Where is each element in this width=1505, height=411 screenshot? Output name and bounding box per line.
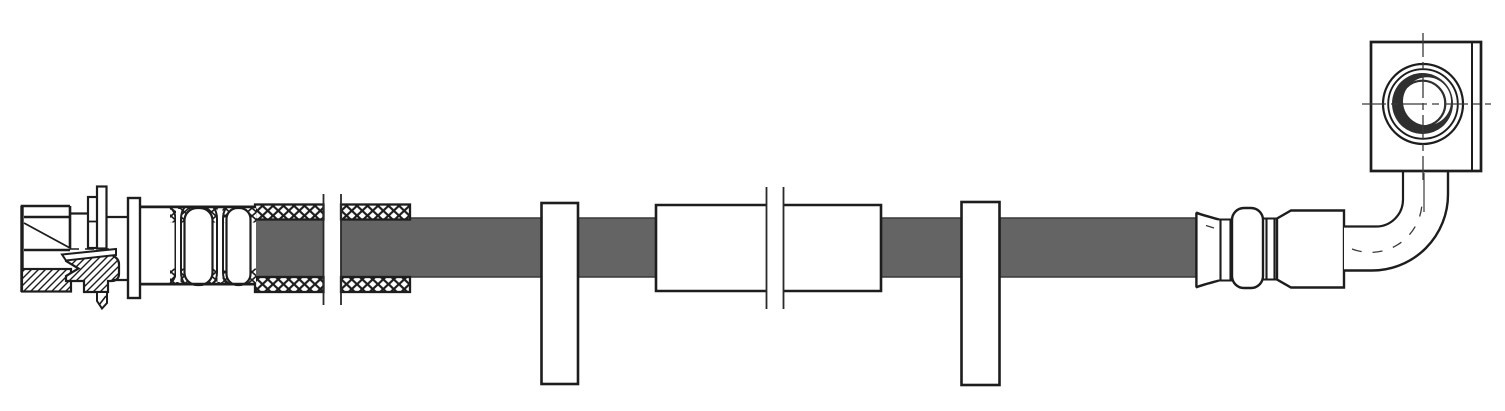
collar barrel bead 1 [185, 208, 213, 285]
mount flange [128, 198, 140, 298]
braid band bottom-left [255, 277, 324, 292]
collar edge lines [140, 207, 256, 284]
tab cross line [88, 221, 98, 223]
right neck 2 [1263, 219, 1277, 280]
block vertical centerline [1422, 33, 1424, 181]
hex nut sectioned (hatched) [66, 255, 119, 292]
block horizontal centerline [1362, 103, 1491, 105]
collar barrel bead 2 [227, 208, 251, 285]
collar body [140, 206, 256, 285]
banjo eye second circle [1388, 69, 1458, 139]
collar rib 2 [214, 208, 227, 284]
hose break line left pair [324, 194, 342, 305]
right neck 1 [1219, 220, 1232, 281]
fitting base [1196, 214, 1344, 280]
hose edge lines [410, 218, 1196, 277]
protective sleeve left half [656, 205, 767, 291]
mounting bracket 2 [962, 202, 1000, 385]
braid band top-left [255, 205, 324, 220]
hose dark rubber segment 3 [881, 218, 1196, 277]
bell centerline dash [1206, 226, 1214, 229]
fitting body box [22, 206, 70, 292]
sleeve break line pair [767, 187, 784, 309]
right ferrule shell [1277, 211, 1344, 288]
fitting lower hatched band [22, 269, 71, 292]
braid band top-right [341, 205, 410, 220]
protective sleeve right half [784, 205, 882, 291]
collar flat section [140, 208, 176, 284]
retainer washer band [62, 249, 116, 261]
banjo eye thick crescent ring [1392, 73, 1453, 134]
upper tab 1 [88, 197, 98, 248]
elbow dashed centerline [1352, 199, 1422, 252]
mounting bracket 1 [542, 203, 579, 384]
hose dark rubber segment 2 [341, 218, 656, 277]
collar rib 1 [176, 208, 185, 284]
collar end flare [250, 207, 256, 284]
connector lines to flange [70, 214, 128, 281]
banjo eye inner circle [1400, 81, 1446, 127]
lower tab pin [97, 292, 107, 309]
banjo eye outer circle [1383, 64, 1463, 144]
right bell flare [1196, 213, 1219, 288]
elbow vertical centerline [1423, 173, 1425, 212]
upper tab 2 [97, 187, 107, 249]
right barrel bead [1232, 208, 1263, 288]
braid band bottom-right [341, 277, 410, 292]
hose dark rubber segment 1 (braided area left of break) [255, 218, 324, 277]
